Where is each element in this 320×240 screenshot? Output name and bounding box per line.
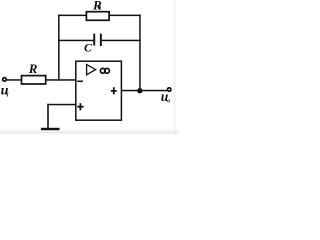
svg-text:R: R bbox=[28, 61, 38, 76]
capacitor C left plate bbox=[93, 34, 95, 46]
capacitor C right plate bbox=[100, 34, 102, 47]
scan artifact: faint page rule vertical bbox=[174, 0, 175, 135]
wire capacitor branch left bbox=[58, 40, 93, 42]
wire capacitor branch right bbox=[102, 40, 141, 42]
junction dot output node bbox=[137, 88, 142, 93]
input terminal u_i circle bbox=[3, 78, 7, 82]
op-amp U1 body rectangle bbox=[76, 61, 122, 120]
output terminal u_o circle bbox=[167, 88, 171, 92]
wire input to R bbox=[7, 79, 22, 81]
resistor R box bbox=[22, 76, 46, 84]
svg-text:o: o bbox=[167, 98, 170, 104]
wire non-inverting input to ground corner bbox=[47, 104, 76, 106]
scan artifact: faint page rule horizontal bbox=[0, 130, 179, 136]
op-amp infinity symbol bbox=[100, 68, 105, 73]
wire top feedback right segment bbox=[109, 15, 141, 17]
op-amp non-inverting input plus sign bbox=[77, 106, 83, 108]
svg-text:C: C bbox=[84, 40, 93, 54]
op-amp inverting input minus sign bbox=[77, 81, 83, 83]
node A: left feedback vertical wire bbox=[58, 15, 60, 81]
ground symbol bar bbox=[41, 128, 60, 130]
op-amp output plus sign bbox=[111, 90, 117, 92]
resistor R1 box bbox=[86, 12, 109, 21]
wire op-amp output bbox=[121, 90, 167, 92]
op-amp gain triangle bbox=[87, 65, 96, 75]
svg-text:i: i bbox=[7, 93, 9, 99]
wire ground vertical bbox=[47, 104, 49, 129]
wire top feedback left segment bbox=[58, 15, 87, 17]
wire R to op-amp inverting input bbox=[46, 79, 77, 81]
node B: right feedback vertical wire bbox=[139, 15, 141, 92]
